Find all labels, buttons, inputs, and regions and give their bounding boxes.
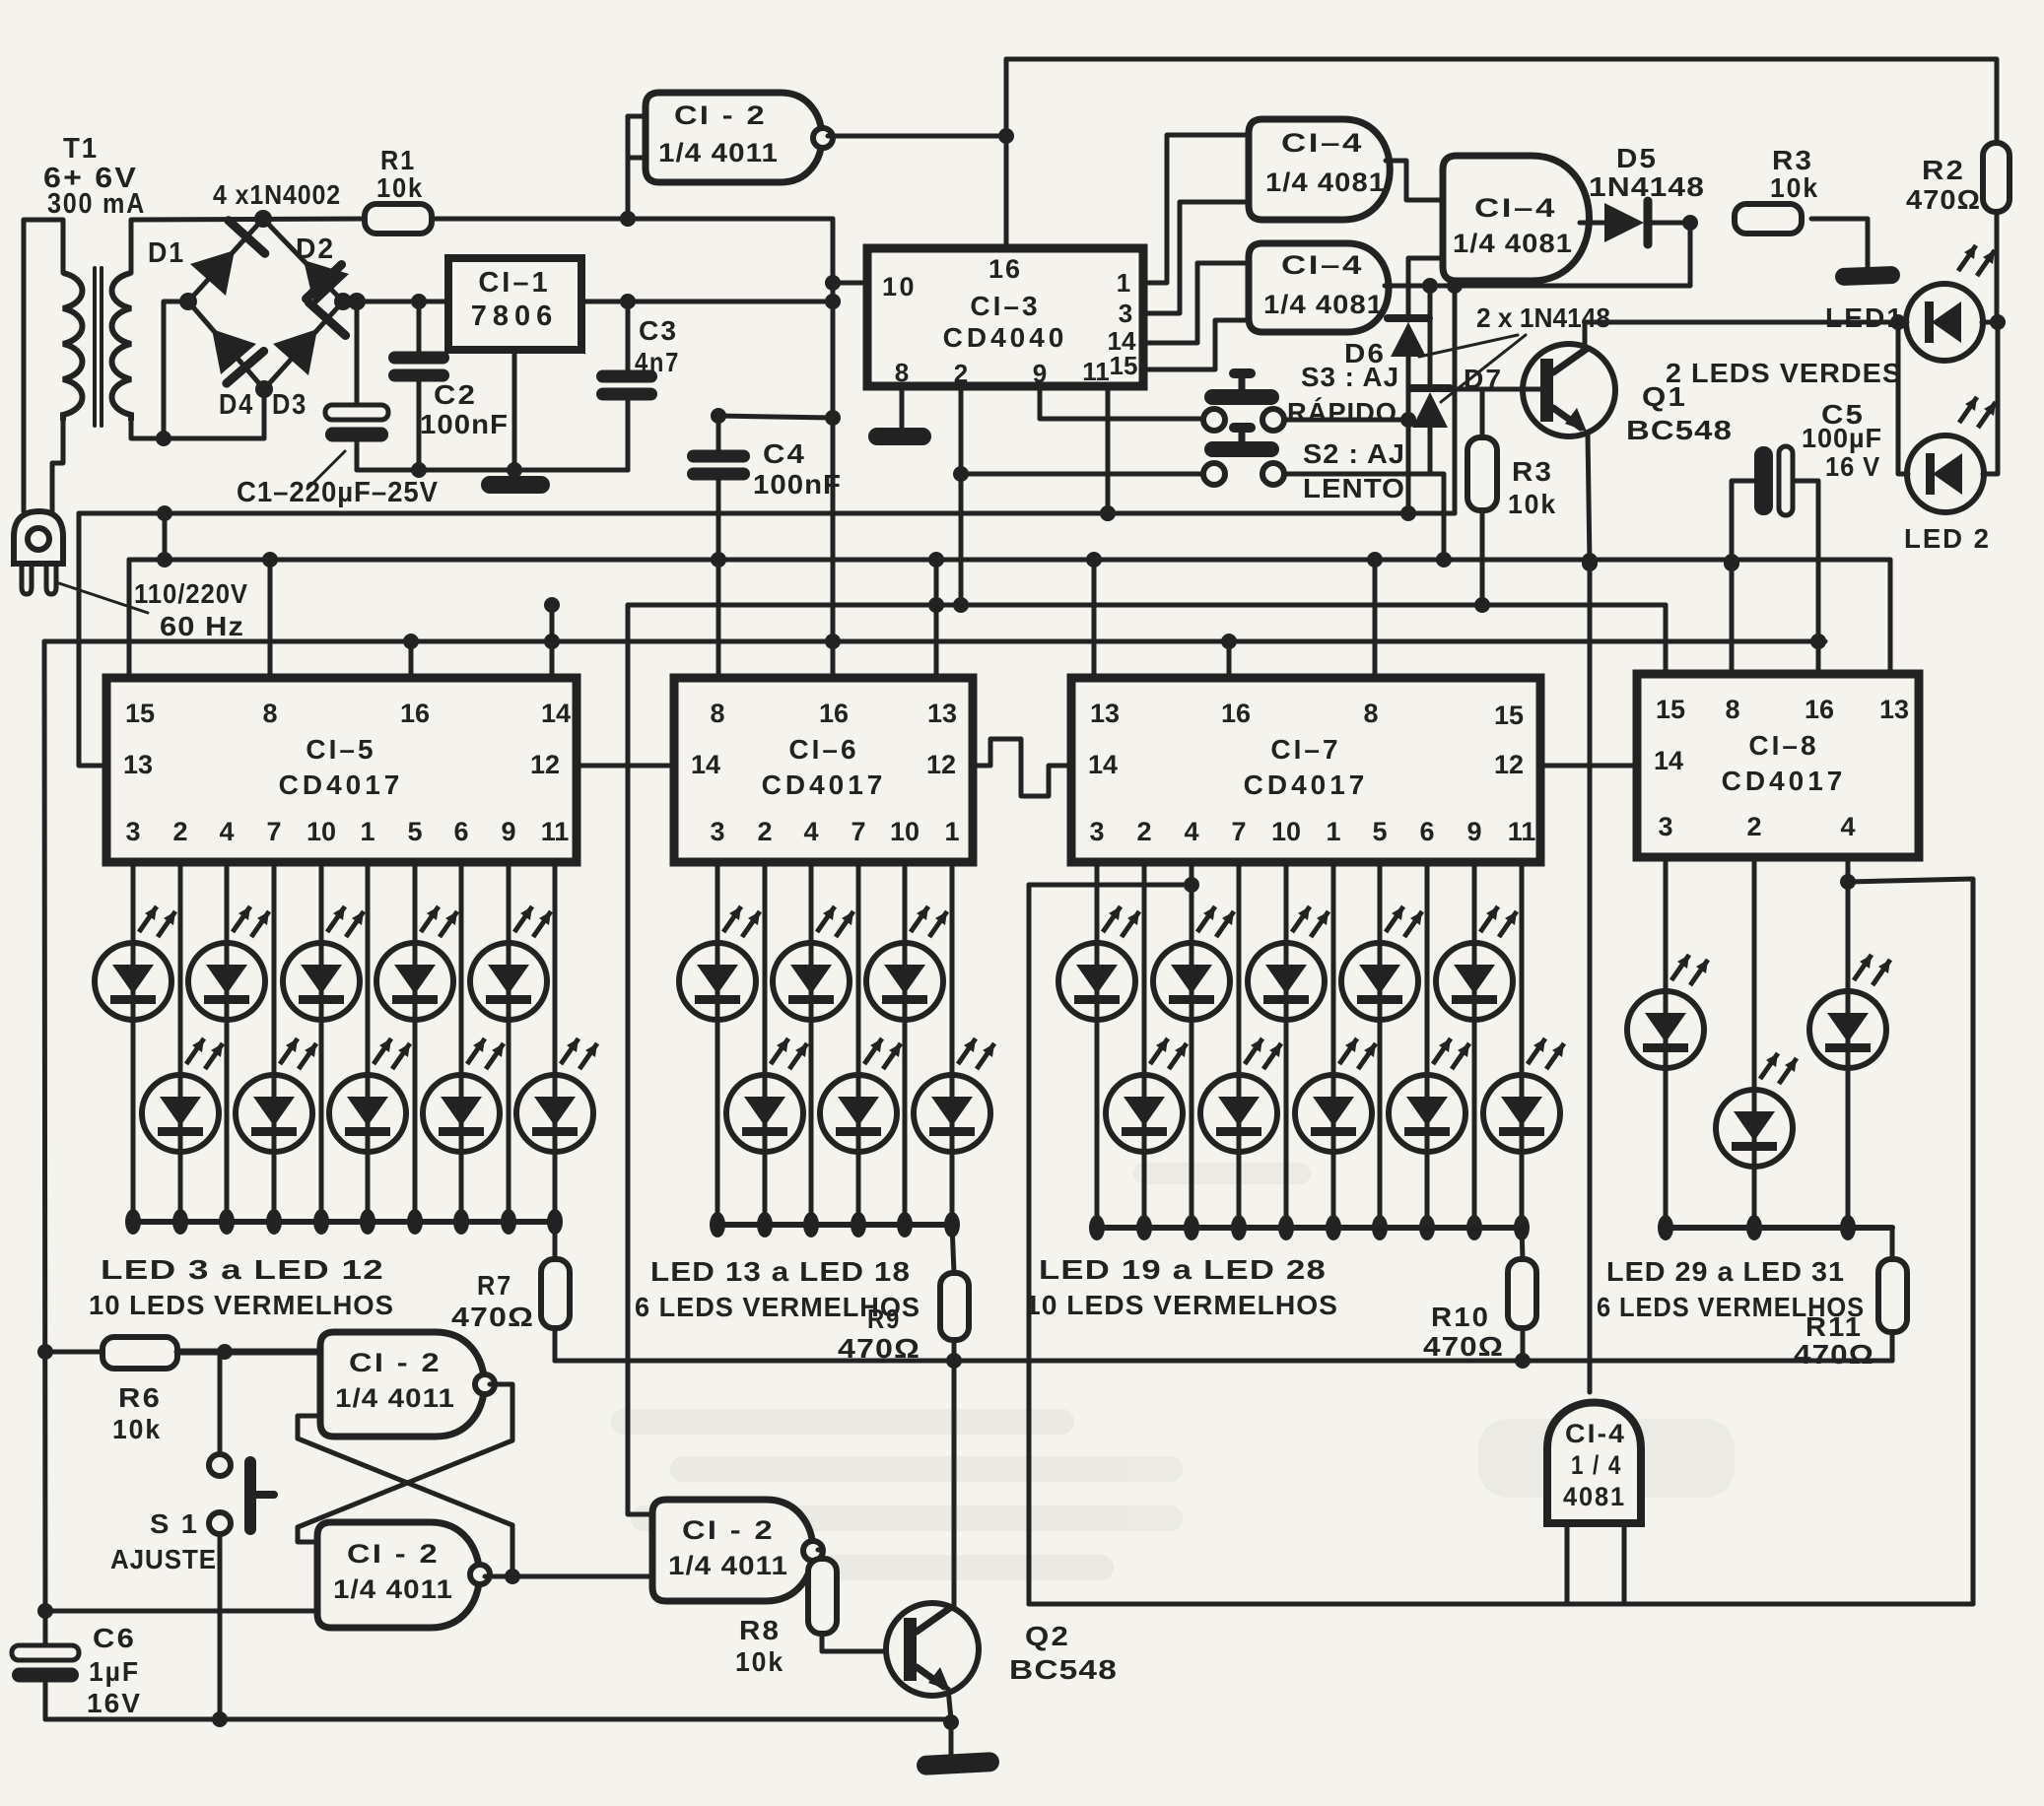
svg-text:14: 14 [541, 699, 571, 728]
wire S3 right to D6 [1284, 418, 1408, 423]
svg-text:3: 3 [1119, 299, 1132, 328]
AND gate CI-4 a [1249, 119, 1390, 220]
LED 31 (red) [1809, 857, 1890, 1240]
wire CI-7 pin8 drop [1373, 560, 1378, 678]
resistor R2 470 [1906, 143, 2010, 215]
svg-text:470Ω: 470Ω [451, 1302, 534, 1332]
wire pin2 node to S2 [961, 472, 1202, 477]
terminal bar near LED1 [1835, 266, 1901, 286]
wire secondary top to rail [131, 219, 365, 273]
svg-text:15: 15 [1494, 701, 1524, 730]
wire bottom rail [45, 1714, 959, 1730]
svg-text:5: 5 [1372, 817, 1387, 846]
wire CI-3 pin9 [1040, 386, 1202, 419]
wire cathode return rail y=1381 [555, 1353, 1892, 1369]
resistor R9 470 [838, 1225, 969, 1364]
LED1 (green) [1825, 245, 1998, 361]
wire CI-3 pin15 to gate [1143, 320, 1249, 369]
svg-text:6: 6 [1419, 817, 1434, 846]
svg-text:14: 14 [691, 750, 720, 779]
label 10 LEDS VERMELHOS (g3) [1025, 1290, 1338, 1320]
svg-text:11: 11 [541, 817, 570, 846]
NAND gate CI-2 c (latch lower) [317, 1522, 490, 1628]
svg-text:11: 11 [1508, 817, 1536, 846]
NAND gate CI-2 d (driver) [652, 1500, 823, 1601]
wire Q1 emitter continues to CI-4d [1588, 564, 1593, 1392]
svg-text:16: 16 [1805, 695, 1834, 724]
svg-text:12: 12 [1494, 750, 1524, 779]
svg-text:100nF: 100nF [420, 409, 509, 439]
svg-text:CI-4: CI-4 [1565, 1419, 1626, 1448]
diode D5 1N4148 [1580, 143, 1705, 244]
label C1-220uF-25V [237, 451, 439, 508]
label R1 wire rail [255, 211, 833, 227]
wire CI-2d input2 [512, 1574, 652, 1579]
svg-text:1/4 4081: 1/4 4081 [1263, 290, 1384, 319]
wire R3b bottom to rail [1474, 510, 1490, 613]
svg-text:S2 : AJ: S2 : AJ [1303, 438, 1405, 469]
label 2 LEDS VERDES [1666, 358, 1902, 388]
svg-text:100µF: 100µF [1802, 423, 1882, 453]
label LED 29 a LED 31 [1606, 1256, 1845, 1287]
svg-text:3: 3 [125, 817, 140, 846]
svg-text:CI–8: CI–8 [1748, 730, 1818, 761]
wire CI-2d output to R8 [818, 1550, 822, 1559]
wire rail B right drop CI-8 pin13 [1888, 560, 1893, 674]
label 6 LEDS VERMELHOS (g4) [1597, 1292, 1865, 1322]
svg-text:D3: D3 [272, 389, 307, 421]
svg-text:R3: R3 [1772, 145, 1813, 175]
svg-text:1/4 4011: 1/4 4011 [668, 1551, 788, 1580]
svg-text:1/4 4081: 1/4 4081 [1453, 229, 1573, 258]
LED 19 (red, CI-7 row1) [1058, 862, 1139, 1240]
wire bottom return y=1628 [1029, 1602, 1973, 1607]
svg-text:11: 11 [1082, 357, 1110, 386]
svg-text:C1–220µF–25V: C1–220µF–25V [237, 477, 439, 508]
svg-text:CI–6: CI–6 [788, 734, 858, 765]
svg-text:3: 3 [710, 817, 724, 846]
wire CI-3 pin3 to gate [1143, 202, 1249, 313]
svg-text:LED 13 a LED 18: LED 13 a LED 18 [650, 1256, 911, 1287]
svg-text:13: 13 [927, 699, 957, 728]
svg-text:13: 13 [1879, 695, 1909, 724]
wire bridge+ to CI-1 [343, 294, 448, 309]
svg-text:470Ω: 470Ω [1794, 1339, 1874, 1370]
wire S2 right to ground rail [1284, 474, 1444, 564]
LED 18 (red, CI-6 row2) [914, 862, 994, 1237]
svg-text:1/4 4011: 1/4 4011 [335, 1383, 455, 1413]
svg-text:LED 19 a LED 28: LED 19 a LED 28 [1039, 1254, 1327, 1285]
wire ground net y477 [357, 462, 628, 478]
LED 30 (red) [1716, 857, 1797, 1240]
diode D7 1N4148 [1410, 286, 1503, 474]
wire rail E left drop (left bus) [44, 641, 45, 1643]
svg-text:8: 8 [1363, 699, 1378, 728]
wire D7 base node [1450, 388, 1541, 437]
wire rail A right riser [1453, 286, 1458, 513]
LED2 (green) [1898, 322, 1998, 554]
capacitor C2 (100nF) [388, 301, 509, 470]
wire vertical x1044 to CI-4d legs [1027, 885, 1032, 1604]
svg-text:R2: R2 [1922, 155, 1965, 185]
svg-text:CI–7: CI–7 [1270, 734, 1340, 765]
wire node292 up to D5 node [1688, 223, 1693, 286]
LED 7 (red, CI-5 row1) [283, 862, 364, 1235]
svg-text:R10: R10 [1431, 1302, 1490, 1332]
capacitor C6 1uF 16V [12, 1603, 142, 1719]
wire rail E (y=651 V+) [44, 634, 1826, 649]
label 110/220V 60Hz [59, 578, 248, 641]
capacitor C5 100uF [1724, 399, 1882, 649]
svg-text:AJUSTE: AJUSTE [110, 1544, 217, 1574]
wire link rails A-B [157, 513, 172, 568]
svg-text:CI–5: CI–5 [306, 734, 375, 765]
svg-text:5: 5 [407, 817, 422, 846]
wire latch cross-coupling 2 [298, 1416, 520, 1584]
svg-text:470Ω: 470Ω [1423, 1331, 1504, 1362]
svg-text:C4: C4 [763, 438, 806, 469]
label 10 LEDS VERMELHOS (g1) [89, 1290, 394, 1320]
LED 6 (red, CI-5 row2) [236, 862, 316, 1235]
wire Q2 collector [952, 1361, 957, 1606]
svg-text:3: 3 [1658, 812, 1672, 841]
wire Q2 emitter to ground [948, 1689, 951, 1756]
diode D3 (bridge bottom-right) [272, 302, 346, 421]
wire CI-2a inputs [620, 116, 646, 227]
svg-text:BC548: BC548 [1626, 415, 1733, 445]
svg-text:10k: 10k [1770, 172, 1819, 203]
svg-text:CD4017: CD4017 [1722, 766, 1847, 796]
resistor R11 470 [1794, 1228, 1907, 1370]
LED 21 (red, CI-7 row1) [1153, 862, 1234, 1240]
svg-text:15: 15 [1656, 695, 1685, 724]
svg-text:14: 14 [1654, 746, 1683, 775]
svg-text:CD4017: CD4017 [1244, 769, 1369, 800]
wire CI-5 pin14 drop [544, 605, 560, 678]
svg-text:1 / 4: 1 / 4 [1571, 1450, 1622, 1480]
svg-text:2: 2 [172, 817, 187, 846]
wire CI-5 pin8 drop [268, 560, 273, 678]
AND gate CI-4 b [1249, 243, 1389, 332]
label LED 13 a LED 18 [650, 1256, 911, 1287]
wire CI-5 pin12 to CI-6 pin14 [577, 764, 674, 769]
svg-text:LED1: LED1 [1825, 302, 1904, 333]
svg-text:2 LEDS VERDES: 2 LEDS VERDES [1666, 358, 1902, 388]
svg-text:10 LEDS VERMELHOS: 10 LEDS VERMELHOS [89, 1290, 394, 1320]
LED 12 (red, CI-5 row2) [516, 862, 597, 1235]
svg-text:470Ω: 470Ω [838, 1333, 920, 1364]
resistor R1 [365, 145, 432, 234]
svg-text:8: 8 [1725, 695, 1739, 724]
svg-text:470Ω: 470Ω [1906, 184, 1981, 215]
pushbutton S3 [1203, 368, 1284, 431]
LED 27 (red, CI-7 row1) [1436, 862, 1517, 1240]
wire CI-1 ground [512, 350, 517, 473]
label 2x1N4148 [1419, 302, 1610, 402]
wire CI-7 pin13 drop [1092, 560, 1097, 678]
wire bridge left vertex drop [156, 301, 188, 446]
wire LED bus group3 [1097, 1225, 1522, 1231]
svg-text:C2: C2 [434, 379, 477, 410]
svg-text:CI–3: CI–3 [970, 291, 1040, 321]
svg-text:D1: D1 [148, 237, 185, 269]
svg-text:10 LEDS VERMELHOS: 10 LEDS VERMELHOS [1025, 1290, 1338, 1320]
wire C5 left to CI-8 pin8 [1730, 564, 1735, 675]
svg-text:16: 16 [400, 699, 430, 728]
svg-text:7: 7 [851, 817, 865, 846]
svg-text:CI–4: CI–4 [1281, 250, 1364, 280]
svg-text:4: 4 [219, 817, 234, 846]
plug P1 (110/220V mains plug) [14, 511, 63, 594]
svg-text:9: 9 [1466, 817, 1481, 846]
svg-text:CI - 2: CI - 2 [682, 1515, 775, 1545]
label 4x1N4002 [213, 179, 341, 210]
label LED 3 a LED 12 [101, 1254, 384, 1285]
pushbutton S1 [209, 1352, 274, 1719]
NAND gate CI-2 a (oscillator) [646, 93, 833, 182]
wire CI-7 pin12 to CI-8 pin14 [1540, 764, 1637, 769]
svg-text:16: 16 [1221, 699, 1251, 728]
svg-text:BC548: BC548 [1009, 1654, 1118, 1685]
capacitor C1 (220uF electrolytic) [325, 301, 388, 470]
svg-text:S 1: S 1 [150, 1508, 199, 1539]
wire CI-2a output [828, 128, 1014, 144]
wire branch to CI-4c in2 [1408, 258, 1443, 286]
svg-text:9: 9 [501, 817, 515, 846]
svg-text:13: 13 [1090, 699, 1120, 728]
svg-text:16V: 16V [87, 1688, 142, 1718]
wire D6 anode route [1400, 412, 1416, 513]
svg-text:1: 1 [944, 817, 959, 846]
svg-text:RÁPIDO: RÁPIDO [1287, 397, 1397, 428]
wire V+ vertical from CI-1 [825, 219, 841, 678]
LED 28 (red, CI-7 row2) [1483, 862, 1564, 1240]
svg-text:CI–4: CI–4 [1474, 193, 1557, 223]
svg-text:CI–4: CI–4 [1281, 128, 1364, 158]
svg-text:1: 1 [1117, 268, 1130, 298]
wire CI-6 pin12 to CI-7 pin14 (staircase) [973, 739, 1071, 796]
svg-text:1N4148: 1N4148 [1589, 171, 1705, 202]
LED 9 (red, CI-5 row1) [376, 862, 457, 1235]
LED 16 (red, CI-6 row2) [820, 862, 901, 1237]
svg-text:Q2: Q2 [1025, 1621, 1070, 1651]
LED 22 (red, CI-7 row2) [1200, 862, 1281, 1240]
svg-text:1/4 4081: 1/4 4081 [1265, 167, 1386, 197]
wire S1 bottom junction [212, 1711, 228, 1727]
wire rail A left drop to CI-5 pin13 [79, 513, 106, 766]
LED 8 (red, CI-5 row2) [329, 862, 410, 1235]
svg-text:CI–1: CI–1 [478, 267, 550, 299]
svg-text:10k: 10k [735, 1646, 784, 1677]
wire R2 to LED1 [1990, 212, 2006, 330]
ground bar below Q2 [917, 1752, 1000, 1775]
svg-text:16 V: 16 V [1825, 451, 1880, 482]
svg-text:R11: R11 [1806, 1311, 1863, 1342]
svg-text:10k: 10k [1508, 489, 1557, 519]
svg-text:8: 8 [262, 699, 277, 728]
wire CI-8 pin4 to right bus [1848, 879, 1973, 1604]
LED 26 (red, CI-7 row2) [1389, 862, 1469, 1240]
wire CI-3 pin8 ground [900, 386, 905, 427]
wire latch cross-coupling 1 [298, 1384, 512, 1542]
svg-text:LED 29 a LED 31: LED 29 a LED 31 [1606, 1256, 1845, 1287]
wire CI-7 pin4 branch to CI-4d [1029, 877, 1199, 893]
svg-text:CD4017: CD4017 [762, 769, 887, 800]
wire rail D (y=614) [544, 597, 1666, 613]
svg-text:R8: R8 [739, 1615, 781, 1645]
LED 10 (red, CI-5 row2) [423, 862, 504, 1235]
LED 14 (red, CI-6 row2) [726, 862, 807, 1237]
diode D2 (bridge top-right) [296, 234, 349, 306]
LED 15 (red, CI-6 row1) [773, 862, 853, 1237]
svg-text:10k: 10k [112, 1414, 162, 1444]
svg-text:100nF: 100nF [753, 469, 842, 500]
transistor Q2 BC548 [886, 1603, 1118, 1696]
wire LED bus group1 [133, 1219, 555, 1225]
wire rail A (y=521) [79, 505, 1455, 521]
wire CI-4a output to CI-4c in1 [1386, 161, 1443, 200]
wire secondary bottom return [131, 421, 264, 438]
svg-text:CI - 2: CI - 2 [349, 1348, 442, 1377]
wire C5 right to CI-8 pin16 [1816, 641, 1821, 675]
svg-text:1/4 4011: 1/4 4011 [333, 1574, 453, 1604]
wire CI-3 pin2 [953, 386, 969, 613]
svg-text:10: 10 [890, 817, 920, 846]
svg-text:R6: R6 [118, 1382, 162, 1413]
wire CI-6 pin13 drop [928, 560, 944, 678]
resistor R3 (top) [1735, 145, 1819, 234]
svg-text:10k: 10k [376, 172, 424, 203]
regulator CI-1 7806 [448, 258, 581, 350]
ground bar under CI-3 [868, 428, 931, 445]
NAND gate CI-2 b (latch upper) [320, 1332, 495, 1437]
svg-text:60 Hz: 60 Hz [160, 611, 244, 641]
wire CI-5 pin16 drop [409, 641, 414, 678]
wire bridge diamond [179, 210, 366, 398]
LED 25 (red, CI-7 row1) [1341, 862, 1422, 1240]
wire CI-3 pin14 to gate [1143, 263, 1249, 343]
label S3 AJ RAPIDO [1287, 362, 1399, 428]
label LED 19 a LED 28 [1039, 1254, 1327, 1285]
IC CI-8 CD4017 [1637, 674, 1919, 857]
svg-text:2: 2 [757, 817, 772, 846]
diode D1 (bridge top-left) [148, 221, 265, 296]
label S2 AJ LENTO [1303, 438, 1405, 503]
resistor R7 470 [451, 1222, 570, 1361]
svg-text:S3 : AJ: S3 : AJ [1301, 362, 1399, 392]
LED 4 (red, CI-5 row2) [142, 862, 223, 1235]
svg-text:4081: 4081 [1563, 1482, 1626, 1511]
pushbutton S2 [1203, 423, 1284, 485]
wire left bus lower [43, 1350, 48, 1355]
diode D6 1N4148 [1344, 286, 1429, 420]
label S1 AJUSTE [110, 1508, 217, 1574]
svg-text:R1: R1 [380, 145, 416, 175]
wire LED bus group2 [717, 1222, 952, 1228]
AND gate CI-4 c [1443, 156, 1590, 281]
wire CI-3 pin11 [1100, 386, 1116, 521]
svg-text:16: 16 [988, 254, 1022, 284]
resistor R10 470 [1423, 1228, 1536, 1362]
LED 29 (red) [1627, 857, 1708, 1240]
transformer T1 primary winding [63, 273, 83, 421]
svg-text:16: 16 [819, 699, 849, 728]
svg-text:R7: R7 [477, 1270, 512, 1301]
svg-text:10: 10 [882, 272, 917, 301]
svg-text:LED 3 a LED 12: LED 3 a LED 12 [101, 1254, 384, 1285]
diode D4 (bridge bottom-left) [212, 329, 264, 421]
svg-text:2: 2 [1746, 812, 1761, 841]
svg-text:110/220V: 110/220V [134, 578, 248, 609]
IC CI-5 CD4017 [106, 678, 577, 862]
LED 3 (red, CI-5 row1) [95, 862, 175, 1235]
svg-text:7806: 7806 [471, 301, 559, 332]
LED 5 (red, CI-5 row1) [188, 862, 269, 1235]
wire rail D left drop to CI-2 gate [628, 605, 652, 1514]
svg-text:12: 12 [926, 750, 956, 779]
svg-text:300 mA: 300 mA [47, 188, 146, 220]
resistor R3 (base, lower) [1467, 437, 1557, 519]
svg-text:C3: C3 [639, 315, 678, 346]
wire rail B (y=568 ground) [129, 552, 1890, 569]
svg-text:13: 13 [123, 750, 153, 779]
label T1 6+6V 300mA [43, 133, 146, 220]
svg-text:15: 15 [1110, 351, 1138, 380]
wire rail B left drop CI-5 pin15 [127, 560, 132, 678]
ground bar under CI-1 [481, 476, 550, 494]
AND gate CI-4 d (pointing up) [1547, 1403, 1641, 1524]
wire top rail to R2 [1006, 59, 1997, 248]
LED 11 (red, CI-5 row1) [470, 862, 551, 1235]
svg-text:6: 6 [453, 817, 468, 846]
svg-text:4n7: 4n7 [635, 347, 680, 377]
svg-text:4: 4 [1184, 817, 1198, 846]
LED 13 (red, CI-6 row1) [679, 862, 760, 1237]
LED 23 (red, CI-7 row1) [1248, 862, 1329, 1240]
svg-text:CD4017: CD4017 [279, 769, 404, 800]
svg-text:R3: R3 [1512, 456, 1553, 487]
wire plug to transformer primary [24, 220, 63, 511]
svg-text:7: 7 [1231, 817, 1246, 846]
svg-text:CI - 2: CI - 2 [347, 1539, 440, 1569]
svg-text:1: 1 [360, 817, 375, 846]
wire R3 to LED1 terminal [1811, 219, 1868, 270]
svg-text:LED 2: LED 2 [1904, 523, 1991, 554]
svg-text:C6: C6 [93, 1623, 136, 1653]
svg-text:14: 14 [1088, 750, 1118, 779]
wire Q1 emitter [1582, 434, 1598, 571]
svg-text:4: 4 [1840, 812, 1855, 841]
svg-text:4 x1N4002: 4 x1N4002 [213, 179, 341, 210]
wire bridge bottom drop [262, 389, 267, 438]
svg-text:15: 15 [125, 699, 155, 728]
transformer T1 secondary winding [112, 273, 132, 421]
transformer T1 core [95, 268, 102, 426]
svg-text:8: 8 [895, 358, 909, 387]
wire LED bus group4 [1666, 1225, 1892, 1231]
svg-text:D5: D5 [1616, 143, 1658, 173]
LED 20 (red, CI-7 row2) [1106, 862, 1187, 1240]
svg-text:1µF: 1µF [89, 1656, 140, 1687]
wire Q1 collector [1585, 314, 1907, 347]
LED 17 (red, CI-6 row1) [866, 862, 947, 1237]
IC CI-3 CD4040 [867, 248, 1143, 388]
svg-text:4: 4 [803, 817, 818, 846]
resistor R6 10k [37, 1337, 320, 1444]
svg-text:8: 8 [710, 699, 724, 728]
capacitor C3 (4n7) [596, 301, 680, 470]
svg-text:CD4040: CD4040 [943, 322, 1068, 353]
